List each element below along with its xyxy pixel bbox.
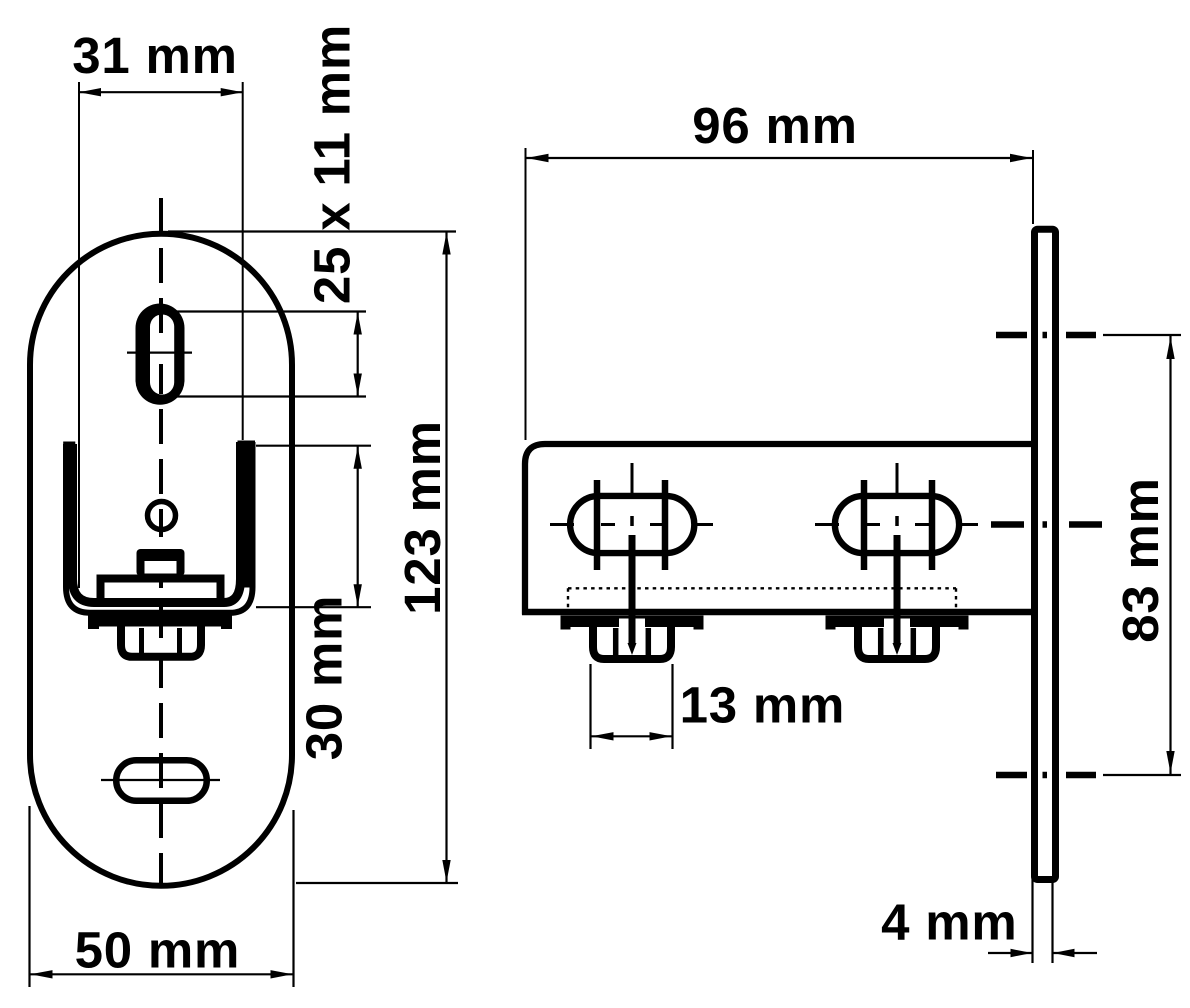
svg-text:83 mm: 83 mm bbox=[1112, 477, 1169, 643]
svg-text:25 x 11 mm: 25 x 11 mm bbox=[304, 24, 361, 304]
svg-text:30 mm: 30 mm bbox=[296, 595, 353, 761]
svg-text:50 mm: 50 mm bbox=[75, 922, 241, 979]
svg-text:96 mm: 96 mm bbox=[692, 97, 858, 154]
svg-text:31 mm: 31 mm bbox=[72, 27, 238, 84]
svg-text:13 mm: 13 mm bbox=[680, 677, 846, 734]
svg-text:4 mm: 4 mm bbox=[881, 894, 1017, 951]
svg-text:123 mm: 123 mm bbox=[394, 420, 451, 615]
